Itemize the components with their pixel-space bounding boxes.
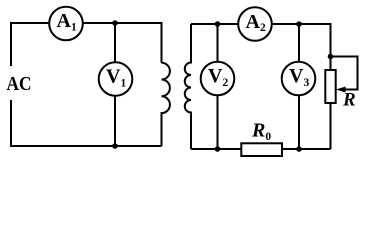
junction dot V1 bottom [112,143,118,149]
wire below rheostat to bottom-right corner [330,103,332,149]
wire bottom of secondary loop right of R0 [282,148,331,150]
wire V3 branch bottom [298,96,300,149]
voltmeter V1 circle [99,62,133,96]
rheostat R box [325,70,335,103]
wire left-bottom corner and bottom of primary loop [11,100,162,146]
wire V2 branch bottom [217,96,219,149]
wire V3 branch top [298,24,300,62]
rheostat wiper wire [331,57,358,90]
svg-text:R: R [342,89,356,110]
junction dot V1 top [112,20,118,26]
ammeter A1 circle [49,7,83,41]
wire V1 branch bottom [114,97,116,147]
voltmeter V3 circle [282,62,316,96]
wire V1 branch top [114,23,116,62]
wire top of secondary loop from A2 to right corner down to rheostat [272,24,330,70]
voltmeter V2 circle [201,62,235,96]
junction dot V3 top [296,21,302,27]
resistor R0 box [241,143,282,156]
wire left-top corner of primary loop [11,23,48,66]
junction dot V3 bottom [296,146,302,152]
junction dot wiper tap [328,54,334,60]
wire V2 branch top [217,24,219,62]
svg-text:AC: AC [7,73,32,95]
ammeter A2 circle [238,7,272,41]
transformer primary winding [162,63,170,146]
wire bottom of secondary loop left of R0 [191,148,241,150]
wire top of secondary loop to A2 [191,23,238,25]
wire top of primary loop from A1 to right corner [83,23,162,63]
junction dot V2 bottom [215,146,221,152]
junction dot V2 top [215,21,221,27]
transformer secondary winding [185,24,191,149]
rheostat wiper arrowhead [336,87,346,93]
